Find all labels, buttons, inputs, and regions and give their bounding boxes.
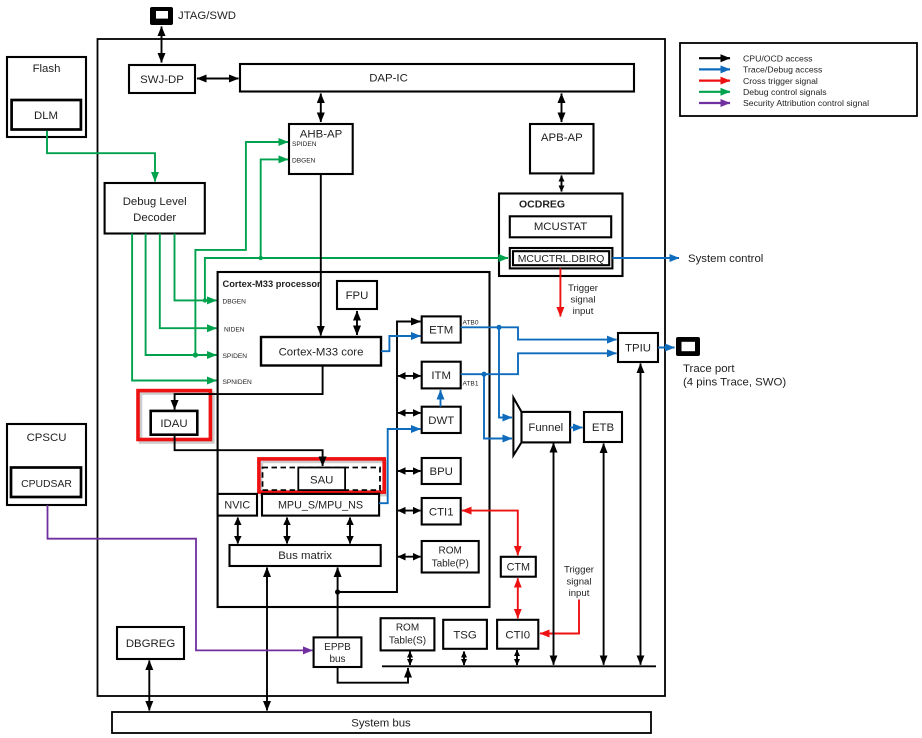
svg-text:DBGREG: DBGREG	[126, 638, 176, 650]
svg-text:DBGEN: DBGEN	[223, 299, 247, 306]
svg-text:SPNIDEN: SPNIDEN	[223, 379, 253, 386]
svg-text:CPSCU: CPSCU	[27, 432, 67, 444]
svg-text:Cortex-M33 core: Cortex-M33 core	[279, 346, 364, 358]
svg-text:Bus matrix: Bus matrix	[278, 550, 332, 562]
svg-text:Security Attribution control s: Security Attribution control signal	[743, 98, 869, 108]
svg-text:signal: signal	[570, 295, 595, 306]
svg-text:System bus: System bus	[351, 718, 411, 730]
svg-text:Trigger: Trigger	[564, 565, 595, 576]
svg-text:CPUDSAR: CPUDSAR	[21, 479, 72, 490]
svg-text:EPPB: EPPB	[324, 642, 351, 653]
svg-text:Funnel: Funnel	[528, 422, 563, 434]
svg-text:APB-AP: APB-AP	[541, 132, 583, 144]
svg-text:input: input	[573, 306, 594, 317]
svg-text:Table(P): Table(P)	[432, 559, 469, 570]
svg-text:JTAG/SWD: JTAG/SWD	[178, 10, 236, 22]
svg-text:NIDEN: NIDEN	[224, 327, 245, 334]
svg-text:MCUCTRL.DBIRQ: MCUCTRL.DBIRQ	[518, 254, 605, 265]
svg-text:bus: bus	[329, 654, 345, 665]
svg-text:Trace port: Trace port	[683, 363, 735, 375]
svg-text:Decoder: Decoder	[133, 212, 176, 224]
svg-text:Cross trigger signal: Cross trigger signal	[743, 76, 818, 86]
svg-text:Debug Level: Debug Level	[123, 196, 187, 208]
svg-text:System control: System control	[688, 253, 763, 265]
svg-text:TSG: TSG	[453, 629, 477, 641]
svg-text:ITM: ITM	[431, 370, 451, 382]
svg-text:FPU: FPU	[346, 290, 369, 302]
svg-text:input: input	[569, 588, 590, 599]
svg-text:SWJ-DP: SWJ-DP	[140, 74, 184, 86]
svg-text:ROM: ROM	[439, 546, 462, 557]
svg-text:AHB-AP: AHB-AP	[300, 129, 342, 141]
svg-text:MPU_S/MPU_NS: MPU_S/MPU_NS	[278, 499, 363, 511]
svg-text:MCUSTAT: MCUSTAT	[534, 221, 587, 233]
svg-text:CTI1: CTI1	[429, 506, 454, 518]
svg-text:(4 pins Trace, SWO): (4 pins Trace, SWO)	[683, 377, 786, 389]
svg-text:OCDREG: OCDREG	[519, 199, 565, 211]
svg-text:SAU: SAU	[310, 475, 333, 487]
svg-text:IDAU: IDAU	[160, 418, 187, 430]
svg-text:Flash: Flash	[33, 63, 61, 75]
svg-text:ETB: ETB	[592, 422, 614, 434]
svg-text:DAP-IC: DAP-IC	[369, 73, 408, 85]
svg-text:TPIU: TPIU	[625, 343, 651, 355]
svg-text:DBGEN: DBGEN	[292, 158, 316, 165]
svg-text:ETM: ETM	[429, 325, 453, 337]
svg-text:SPIDEN: SPIDEN	[292, 141, 317, 148]
svg-text:CTI0: CTI0	[505, 629, 530, 641]
svg-text:CPU/OCD access: CPU/OCD access	[743, 53, 813, 63]
svg-text:Debug control signals: Debug control signals	[743, 87, 827, 97]
svg-text:ATB0: ATB0	[463, 320, 479, 327]
svg-text:NVIC: NVIC	[224, 499, 250, 511]
svg-text:BPU: BPU	[429, 466, 452, 478]
svg-text:Table(S): Table(S)	[389, 636, 426, 647]
svg-text:ATB1: ATB1	[463, 381, 479, 388]
svg-text:SPIDEN: SPIDEN	[223, 353, 248, 360]
svg-text:Cortex-M33 processor: Cortex-M33 processor	[223, 279, 322, 289]
svg-text:Trigger: Trigger	[568, 283, 599, 294]
svg-text:CTM: CTM	[507, 561, 530, 573]
svg-text:DWT: DWT	[428, 415, 454, 427]
svg-text:signal: signal	[566, 577, 591, 588]
svg-text:Trace/Debug access: Trace/Debug access	[743, 65, 823, 75]
svg-text:ROM: ROM	[396, 623, 419, 634]
svg-text:DLM: DLM	[34, 110, 58, 122]
